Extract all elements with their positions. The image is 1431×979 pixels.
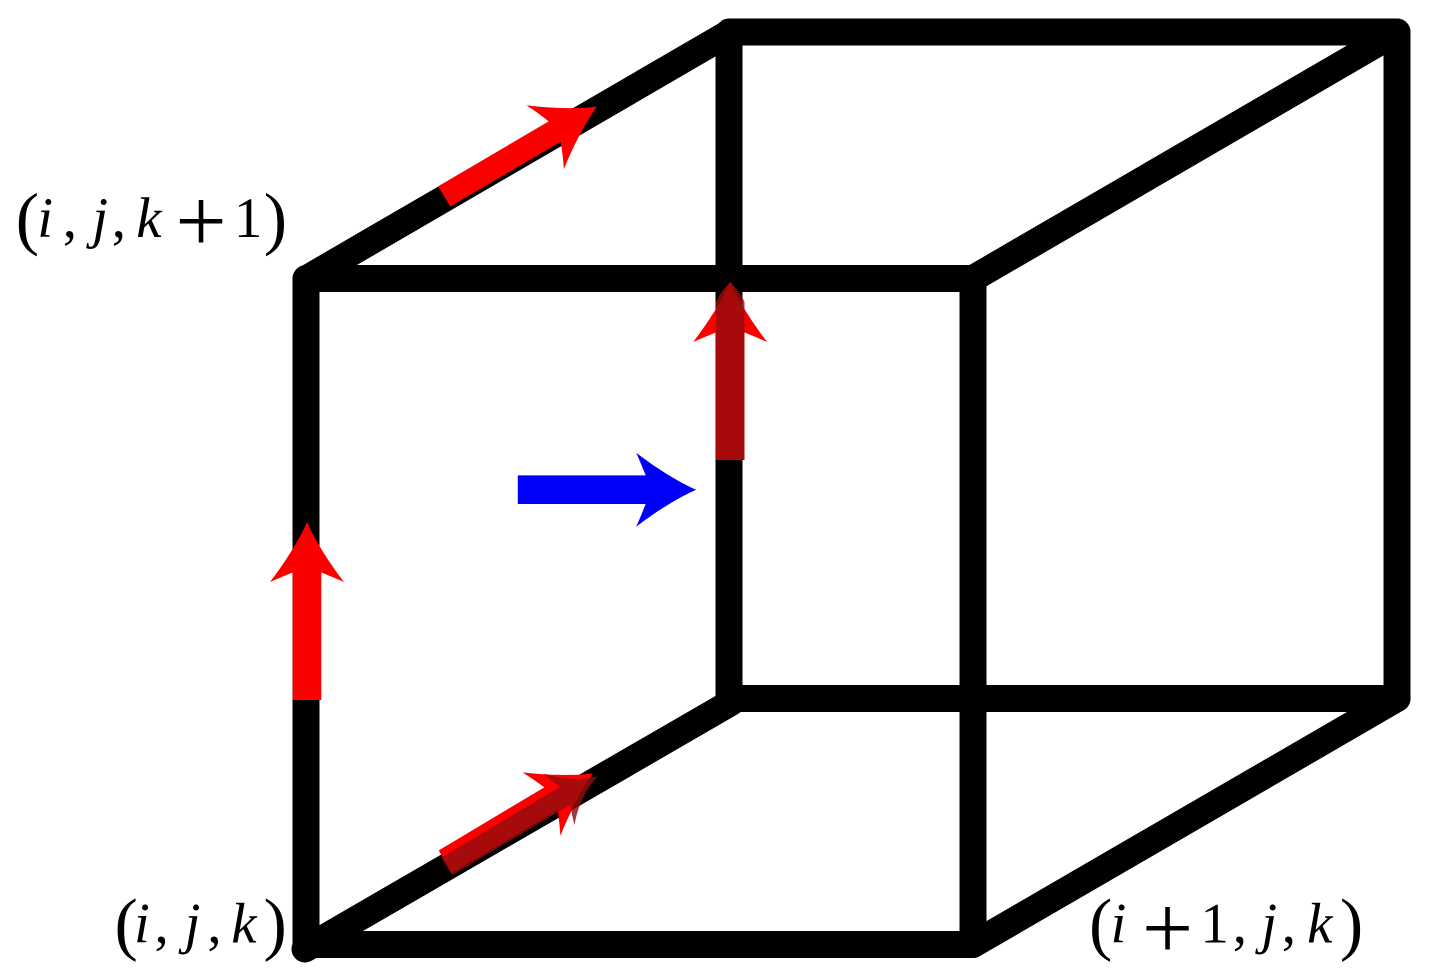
cube front face (i,j,k) square: [306, 279, 973, 945]
wire depth edge bottom-right to (i+1,j,k): [973, 699, 1397, 945]
arrow dark red Ey overlay on bottom-left depth edge: [431, 750, 613, 892]
wire depth edge bottom-left: [305, 703, 731, 950]
wire depth edge top-right: [973, 32, 1397, 279]
wire depth edge top-left (i,j,k+1) to back: [306, 33, 729, 279]
arrow dark red Ez overlay on back-left vertical edge: [716, 282, 745, 460]
arrow bright red head under dark Ez on back-left vertical edge: [693, 282, 767, 460]
arrow red Ez on front-left vertical edge: [270, 522, 344, 700]
arrow bright red head under dark Ey on bottom-left depth edge: [426, 742, 612, 894]
cube back face square: [729, 32, 1397, 699]
arrow blue Hx pointing right at face center: [518, 453, 696, 527]
arrow red Ey on top-left depth edge: [426, 75, 616, 228]
